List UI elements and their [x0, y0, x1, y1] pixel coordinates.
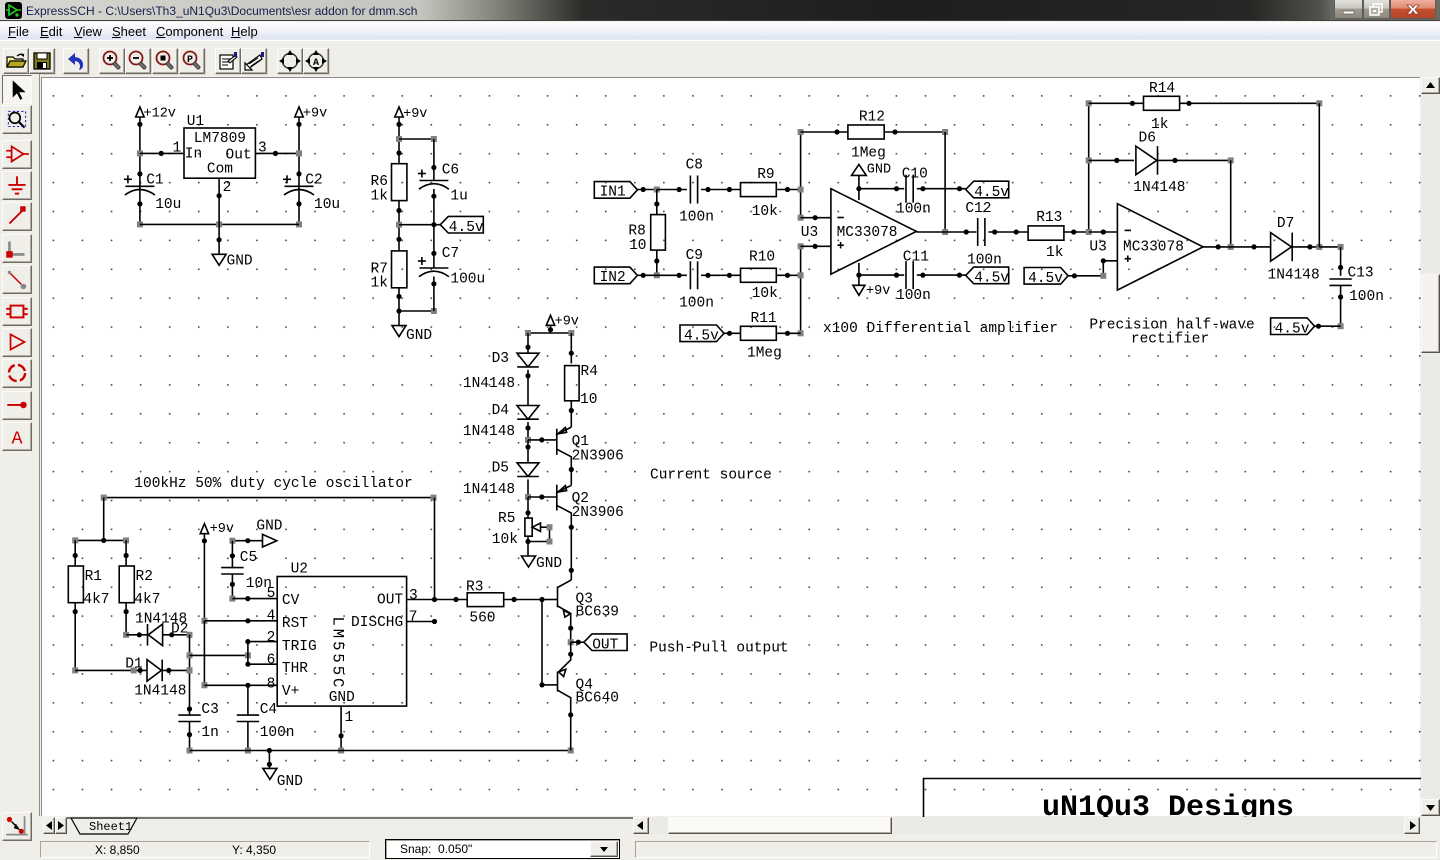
svg-text:IN1: IN1	[600, 185, 626, 201]
wire	[569, 525, 574, 573]
wire	[75, 667, 147, 673]
wire	[204, 683, 277, 688]
svg-text:C6: C6	[442, 163, 459, 179]
wire	[399, 308, 437, 314]
diode D2 1N4148	[135, 612, 188, 646]
ground	[392, 326, 432, 344]
resistor R14	[1144, 81, 1180, 133]
diode D1 1N4148	[125, 657, 186, 700]
wire	[431, 189, 436, 225]
wire	[190, 748, 574, 754]
capacitor C10	[896, 167, 931, 218]
svg-text:2N3906: 2N3906	[572, 449, 624, 465]
wire	[1180, 100, 1323, 106]
svg-text:U1: U1	[187, 114, 204, 130]
svg-text:100n: 100n	[896, 202, 931, 218]
wire	[245, 639, 250, 667]
wire	[637, 273, 656, 278]
svg-text:LM7809: LM7809	[194, 131, 246, 147]
wire	[248, 641, 277, 643]
wire	[163, 632, 193, 638]
wire	[434, 498, 436, 600]
wire	[187, 635, 193, 715]
wire	[917, 186, 966, 191]
wire	[989, 229, 1029, 234]
svg-text:Current source: Current source	[650, 468, 772, 484]
svg-text:1: 1	[345, 710, 354, 726]
wire	[162, 667, 192, 673]
wire	[1318, 103, 1320, 247]
capacitor C9	[679, 248, 714, 311]
svg-text:U3: U3	[1089, 240, 1106, 256]
svg-text:GND: GND	[227, 254, 253, 270]
node IN1	[594, 182, 637, 201]
svg-text:rectifier: rectifier	[1131, 332, 1209, 348]
wire	[571, 641, 584, 643]
wire	[798, 129, 804, 221]
transistor Q2 2N3906	[557, 485, 624, 580]
wire	[1089, 229, 1118, 234]
wire	[1064, 229, 1089, 234]
svg-text:1N4148: 1N4148	[134, 684, 186, 700]
wire	[72, 537, 129, 543]
resistor R3	[466, 580, 504, 627]
wire	[399, 136, 437, 142]
svg-text:1u: 1u	[450, 189, 467, 205]
svg-text:+9v: +9v	[403, 107, 427, 122]
svg-text:C10: C10	[902, 167, 928, 183]
wire	[654, 190, 659, 215]
wire	[248, 663, 277, 665]
svg-text:1Meg: 1Meg	[851, 146, 886, 162]
wire	[245, 722, 251, 754]
resistor R11	[741, 311, 782, 362]
svg-text:100n: 100n	[896, 288, 931, 304]
wire	[525, 524, 552, 544]
wire	[776, 273, 800, 278]
wire	[569, 467, 574, 472]
wire	[201, 621, 207, 689]
pin 6	[267, 653, 276, 669]
node IN2	[594, 267, 637, 286]
wire	[528, 437, 557, 442]
wire	[267, 751, 272, 769]
svg-text:4k7: 4k7	[134, 592, 160, 608]
svg-text:uN1Qu3 Designs: uN1Qu3 Designs	[1042, 791, 1294, 817]
svg-text:1Meg: 1Meg	[747, 346, 782, 362]
svg-text:1N4148: 1N4148	[463, 376, 515, 392]
ground	[522, 556, 563, 572]
svg-text:100kHz 50% duty cycle oscillat: 100kHz 50% duty cycle oscillator	[134, 476, 412, 492]
wire	[701, 187, 740, 192]
resistor R12	[848, 110, 886, 162]
wire	[548, 325, 553, 333]
svg-text:R10: R10	[749, 250, 775, 266]
resistor R6	[371, 164, 407, 205]
svg-text:MC33078: MC33078	[1123, 240, 1184, 256]
wire	[776, 331, 800, 336]
transistor Q3 BC639	[558, 580, 620, 642]
svg-text:C5: C5	[240, 550, 257, 566]
wire	[1228, 160, 1234, 250]
svg-text:DISCHG: DISCHG	[351, 615, 403, 631]
wire	[504, 597, 545, 602]
wire	[527, 536, 529, 556]
svg-text:1N4148: 1N4148	[463, 424, 515, 440]
svg-text:GND: GND	[256, 519, 282, 535]
wire	[124, 540, 129, 566]
wire	[140, 221, 299, 227]
svg-text:+12v: +12v	[144, 107, 176, 122]
wire	[859, 273, 904, 278]
op-amp U3 MC33078	[801, 189, 917, 275]
wire	[701, 273, 740, 278]
wire	[1203, 244, 1271, 249]
resistor R2	[119, 566, 160, 608]
svg-text:2N3906: 2N3906	[572, 505, 624, 521]
svg-text:1k: 1k	[371, 189, 388, 205]
ground	[212, 254, 253, 270]
svg-text:4.5v: 4.5v	[974, 271, 1009, 287]
IC U2 LM555C	[277, 562, 406, 707]
node 4.5v	[966, 267, 1010, 287]
ground	[263, 768, 303, 790]
wire	[407, 619, 438, 624]
svg-text:OUT: OUT	[592, 638, 618, 654]
svg-text:4: 4	[267, 609, 276, 625]
svg-text:2: 2	[223, 180, 232, 196]
svg-text:7: 7	[409, 610, 418, 626]
wire	[1158, 157, 1234, 163]
capacitor C4	[237, 702, 295, 741]
label	[134, 476, 412, 492]
capacitor C1	[124, 173, 181, 214]
wire	[1089, 101, 1144, 106]
wire	[217, 178, 222, 224]
svg-text:1k: 1k	[1046, 245, 1063, 261]
resistor R8	[628, 215, 665, 254]
wire	[542, 684, 558, 686]
capacitor C6	[418, 163, 468, 205]
wire	[1089, 158, 1134, 163]
svg-text:x100 Differential amplifier: x100 Differential amplifier	[823, 321, 1058, 337]
node 4.5v	[1271, 318, 1315, 338]
svg-text:Sheet1: Sheet1	[89, 820, 132, 834]
capacitor C3	[178, 702, 219, 741]
wire	[187, 722, 193, 754]
svg-text:1n: 1n	[201, 725, 218, 741]
wire	[858, 175, 860, 200]
svg-text:RST: RST	[282, 616, 308, 632]
svg-text:R4: R4	[581, 364, 598, 380]
svg-text:1N4148: 1N4148	[135, 612, 187, 628]
wire	[801, 215, 831, 220]
svg-text:R14: R14	[1149, 81, 1175, 97]
pin 8	[267, 677, 276, 693]
wire	[1068, 258, 1117, 279]
svg-text:A: A	[313, 58, 319, 69]
svg-text:In: In	[185, 147, 202, 163]
wire	[801, 129, 848, 134]
wire	[431, 225, 436, 268]
pin 3	[409, 588, 418, 604]
wire	[724, 331, 741, 336]
svg-text:10: 10	[580, 392, 597, 408]
svg-text:C13: C13	[1348, 266, 1374, 282]
node 4.5v	[1024, 268, 1068, 288]
wire	[1338, 285, 1344, 329]
wire	[229, 574, 235, 602]
wire	[776, 187, 800, 192]
wire	[1319, 244, 1343, 250]
svg-text:1: 1	[173, 141, 182, 157]
capacitor C5	[221, 550, 272, 592]
svg-text:4.5v: 4.5v	[974, 185, 1009, 201]
power +9v	[295, 107, 327, 122]
svg-text:560: 560	[469, 611, 495, 627]
node 4.5v	[440, 216, 484, 236]
transistor Q1 2N3906	[557, 427, 624, 485]
node OUT	[568, 626, 627, 654]
capacitor C7	[418, 246, 485, 288]
svg-text:100n: 100n	[967, 253, 1002, 269]
power +12v	[136, 107, 176, 122]
wire	[137, 117, 143, 227]
wire	[539, 600, 544, 688]
svg-text:R13: R13	[1036, 210, 1062, 226]
diode D6 1N4148	[1133, 131, 1185, 197]
svg-text:GND: GND	[867, 163, 891, 178]
wire	[525, 479, 531, 500]
pin 2	[267, 630, 276, 646]
label	[650, 468, 772, 484]
svg-text:Com: Com	[207, 162, 233, 178]
svg-text:V+: V+	[282, 684, 299, 700]
trimmer R5 10k	[492, 511, 541, 548]
wire	[431, 277, 436, 312]
svg-text:C4: C4	[260, 702, 277, 718]
wire	[942, 132, 948, 235]
capacitor C2	[283, 173, 340, 214]
resistor R1	[68, 566, 109, 608]
pin 5	[267, 586, 276, 602]
svg-text:C1: C1	[146, 173, 163, 189]
svg-text:R1: R1	[85, 569, 102, 585]
wire	[73, 540, 78, 566]
wire	[525, 330, 574, 336]
wire	[917, 273, 966, 278]
svg-text:1N4148: 1N4148	[1268, 268, 1320, 284]
svg-text:D3: D3	[492, 351, 509, 367]
wire	[190, 652, 251, 658]
pin 1	[173, 141, 182, 157]
svg-text:100n: 100n	[679, 210, 714, 226]
power +9v	[200, 522, 234, 537]
svg-text:C7: C7	[442, 246, 459, 262]
svg-text:R2: R2	[136, 569, 153, 585]
svg-text:R11: R11	[751, 311, 777, 327]
resistor R10	[741, 250, 778, 303]
wire	[101, 495, 437, 501]
svg-text:LM555C: LM555C	[328, 617, 346, 691]
svg-text:1N4148: 1N4148	[463, 482, 515, 498]
svg-text:R12: R12	[859, 110, 885, 126]
wire	[296, 117, 302, 227]
regulator U1 LM7809	[184, 114, 255, 178]
svg-text:P: P	[187, 55, 193, 66]
pin 2	[223, 180, 232, 196]
wire	[525, 440, 530, 463]
wire	[396, 201, 402, 251]
wire	[229, 538, 262, 544]
wire	[399, 222, 440, 227]
svg-text:GND: GND	[406, 328, 432, 344]
wire	[569, 401, 574, 427]
wire	[247, 685, 249, 715]
svg-text:4.5v: 4.5v	[1275, 322, 1310, 338]
wire	[884, 129, 948, 135]
svg-text:GND: GND	[277, 774, 303, 790]
wire	[1338, 247, 1343, 276]
diode D5 1N4148	[463, 461, 539, 499]
wire	[1315, 324, 1341, 329]
wire	[525, 370, 530, 406]
label	[1089, 318, 1254, 348]
svg-text:R6: R6	[371, 174, 388, 190]
wire	[542, 599, 558, 601]
wire	[525, 333, 530, 353]
capacitor C12	[965, 201, 1001, 269]
label	[649, 641, 788, 657]
diode D3 1N4148	[463, 351, 539, 392]
svg-text:10k: 10k	[752, 204, 778, 220]
wire	[204, 618, 277, 623]
power GND flag	[852, 163, 892, 178]
label	[823, 321, 1058, 337]
wire	[230, 541, 235, 568]
svg-text:3: 3	[409, 588, 418, 604]
svg-text:10k: 10k	[492, 532, 518, 548]
svg-text:THR: THR	[282, 661, 308, 677]
power +9v	[395, 107, 428, 122]
wire	[569, 333, 574, 363]
capacitor C8	[679, 157, 714, 225]
svg-text:10u: 10u	[155, 197, 181, 213]
svg-text:4.5v: 4.5v	[1028, 271, 1063, 287]
svg-text:C8: C8	[686, 157, 703, 173]
pin 7	[409, 610, 418, 626]
svg-text:4.5v: 4.5v	[449, 220, 484, 236]
svg-text:100n: 100n	[260, 725, 295, 741]
svg-text:4k7: 4k7	[83, 592, 109, 608]
diode D4 1N4148	[463, 403, 539, 440]
capacitor C11	[896, 250, 931, 305]
svg-text:U3: U3	[801, 225, 818, 241]
ground arrow GND	[256, 519, 282, 548]
svg-text:D7: D7	[1277, 216, 1294, 232]
wire	[654, 250, 660, 278]
wire	[407, 597, 468, 602]
op-amp U3 MC33078 (B)	[1089, 204, 1203, 290]
wire	[528, 494, 557, 499]
svg-text:C2: C2	[305, 173, 322, 189]
resistor R4	[565, 364, 598, 408]
wire	[431, 139, 436, 181]
svg-text:BC640: BC640	[576, 691, 620, 707]
wire	[72, 603, 78, 674]
wire	[525, 497, 530, 518]
resistor R9	[741, 167, 778, 220]
svg-text:GND: GND	[329, 690, 355, 706]
svg-text:4.5v: 4.5v	[684, 329, 719, 345]
svg-text:IN2: IN2	[600, 270, 626, 286]
wire	[232, 596, 277, 601]
wire	[217, 224, 222, 254]
wire	[396, 288, 401, 326]
wire	[396, 117, 402, 164]
wire	[126, 632, 147, 637]
svg-text:TRIG: TRIG	[282, 639, 317, 655]
wire	[201, 534, 207, 624]
wire	[801, 244, 831, 249]
svg-text:MC33078: MC33078	[837, 225, 898, 241]
wire	[123, 603, 129, 638]
wire	[798, 243, 804, 336]
svg-text:U2: U2	[291, 562, 308, 578]
node 4.5v	[966, 181, 1010, 201]
wire	[637, 187, 659, 193]
power +9v	[546, 315, 579, 330]
svg-text:R3: R3	[466, 580, 483, 596]
wire	[525, 422, 531, 443]
svg-text:Push-Pull output: Push-Pull output	[649, 641, 788, 657]
svg-text:2: 2	[267, 630, 276, 646]
wire	[657, 273, 687, 278]
wire	[916, 229, 976, 234]
svg-text:A: A	[12, 430, 23, 450]
power +9v flag	[853, 284, 890, 299]
svg-text:6: 6	[267, 653, 276, 669]
diode D7 1N4148	[1268, 216, 1320, 284]
title block	[924, 779, 1422, 826]
svg-text:100n: 100n	[679, 295, 714, 311]
wire	[338, 706, 344, 753]
transistor Q4 BC640	[558, 642, 620, 750]
wire	[568, 712, 573, 717]
svg-text:10: 10	[629, 238, 646, 254]
wire	[1292, 244, 1322, 250]
svg-text:CV: CV	[282, 593, 300, 609]
pin 4	[267, 609, 276, 625]
svg-text:OUT: OUT	[377, 593, 403, 609]
wire	[856, 263, 861, 285]
resistor R7	[371, 251, 407, 292]
svg-text:1N4148: 1N4148	[1133, 180, 1185, 196]
svg-text:100n: 100n	[1349, 289, 1384, 305]
svg-text:1k: 1k	[371, 276, 388, 292]
svg-text:BC639: BC639	[576, 605, 620, 621]
wire	[1086, 100, 1092, 235]
svg-text:D6: D6	[1139, 131, 1156, 147]
svg-text:+9v: +9v	[555, 315, 579, 330]
svg-text:100u: 100u	[450, 272, 485, 288]
svg-text:GND: GND	[536, 556, 562, 572]
svg-text:+9v: +9v	[303, 107, 327, 122]
pin 3	[258, 141, 267, 157]
svg-text:5: 5	[267, 586, 276, 602]
node 4.5v	[680, 325, 724, 345]
wire	[103, 498, 105, 541]
